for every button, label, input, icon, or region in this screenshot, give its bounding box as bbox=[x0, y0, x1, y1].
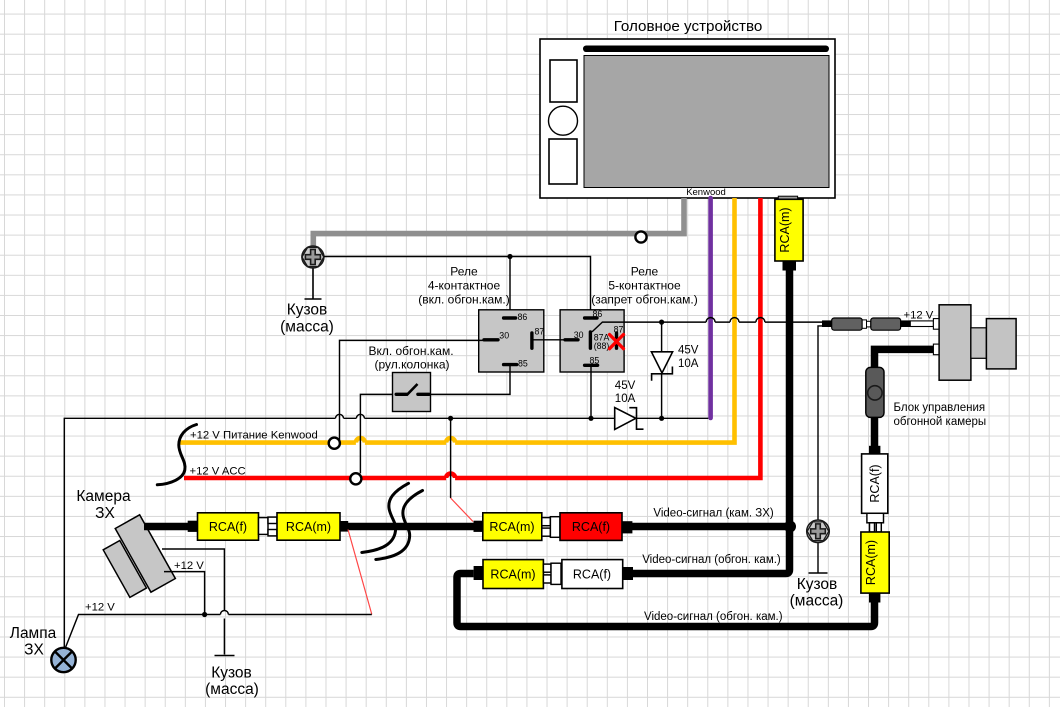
svg-text:85: 85 bbox=[518, 358, 528, 368]
svg-text:Камера: Камера bbox=[76, 488, 131, 505]
cable video main vertical bbox=[786, 269, 794, 527]
head unit U1 body bbox=[540, 39, 835, 198]
svg-text:+12 V Питание Kenwood: +12 V Питание Kenwood bbox=[190, 430, 318, 442]
connector RCA(m) row2 bbox=[483, 560, 543, 589]
label Кузов (масса) left bbox=[280, 302, 334, 336]
svg-text:(вкл. обгон.кам.): (вкл. обгон.кам.) bbox=[418, 293, 510, 307]
svg-text:Лампа: Лампа bbox=[10, 625, 57, 642]
connector RCA(f) camera bbox=[198, 513, 259, 540]
svg-text:Реле: Реле bbox=[631, 265, 659, 279]
svg-text:86: 86 bbox=[518, 312, 528, 322]
fuse F1 bbox=[866, 367, 884, 417]
head unit knob bbox=[549, 106, 578, 135]
svg-text:Кузов: Кузов bbox=[797, 576, 838, 593]
svg-text:ЗХ: ЗХ bbox=[95, 505, 115, 522]
wire switch to relay K1 pin85 bbox=[431, 366, 511, 394]
label Вкл. обгон.кам. (рул.колонка) bbox=[368, 344, 453, 371]
diode D1 45V 10A horizontal bbox=[591, 380, 662, 429]
wire +12V from relay K2 pin 87A to connectors bbox=[592, 318, 822, 332]
diode D2 45V 10A vertical bbox=[651, 322, 698, 418]
svg-text:(масса): (масса) bbox=[205, 681, 259, 698]
leader red into cable B bbox=[348, 530, 372, 615]
svg-text:(запрет обгон.кам.): (запрет обгон.кам.) bbox=[591, 293, 698, 307]
cable break S on supply wires bbox=[157, 425, 196, 485]
cable fuse to RCA(f) bbox=[869, 417, 880, 454]
connector RCA(f) red row1 bbox=[560, 513, 632, 541]
relay K2 pin 87A (88) bbox=[590, 332, 609, 351]
relay K1 4-pin body bbox=[479, 310, 544, 372]
control unit camera assembly bbox=[933, 305, 1016, 380]
label Камера ЗХ bbox=[76, 488, 131, 522]
connector RCA(m) head unit bbox=[775, 196, 803, 270]
wire switch to red tap bbox=[360, 394, 392, 473]
svg-text:ЗХ: ЗХ bbox=[24, 642, 44, 659]
label +12 V lamp bbox=[85, 602, 115, 614]
label Головное устройство bbox=[614, 18, 763, 35]
connector mating row1 bbox=[542, 517, 560, 538]
svg-text:обгонной камеры: обгонной камеры bbox=[894, 416, 987, 428]
label Кузов (масса) bottom bbox=[205, 665, 259, 699]
relay K1 pin 86 bbox=[504, 312, 528, 322]
svg-text:45V: 45V bbox=[678, 345, 699, 357]
connector RCA(f) white row2 bbox=[562, 560, 633, 589]
cable video row2 to RCA(f) bbox=[632, 527, 790, 574]
svg-text:Реле: Реле bbox=[450, 265, 478, 279]
svg-text:RCA(m): RCA(m) bbox=[490, 567, 535, 581]
label Лампа ЗХ bbox=[10, 625, 57, 659]
node junction video cables bbox=[784, 521, 796, 533]
connector ring tap on red wire bbox=[350, 473, 361, 484]
connector RCA(m) overtake camera bbox=[861, 532, 889, 593]
svg-text:(масса): (масса) bbox=[790, 593, 844, 610]
label +12 V ACC bbox=[190, 466, 246, 478]
svg-text:10A: 10A bbox=[678, 358, 699, 370]
svg-text:30: 30 bbox=[499, 330, 509, 340]
label Реле 5-контактное (запрет обгон.кам.) bbox=[591, 265, 698, 307]
wire red +12V ACC bbox=[184, 198, 760, 478]
connector mating right column bbox=[867, 513, 884, 532]
wire branch x450 down into video cable bbox=[450, 418, 452, 498]
lamp reverse light bbox=[51, 648, 75, 672]
svg-text:RCA(m): RCA(m) bbox=[489, 520, 534, 534]
relay K1 pin 30 bbox=[484, 330, 509, 340]
label +12 V camera bbox=[174, 560, 204, 572]
connector mating row2 bbox=[543, 563, 561, 584]
connector mating camera row bbox=[259, 517, 278, 536]
svg-text:(рул.колонка): (рул.колонка) bbox=[374, 357, 449, 371]
svg-text:Video-сигнал (обгон. кам.): Video-сигнал (обгон. кам.) bbox=[644, 611, 783, 623]
bullet connector pair on +12V feed bbox=[822, 318, 933, 330]
svg-text:Kenwood: Kenwood bbox=[686, 187, 726, 198]
wire ground drop to right bolt bbox=[809, 326, 828, 573]
node junction +12V line at diode D2 bbox=[659, 320, 664, 325]
switch S1 body bbox=[393, 373, 431, 412]
wire orange +12V Kenwood bbox=[180, 198, 735, 443]
relay K2 pin 87 (crossed out) bbox=[610, 324, 624, 348]
cable break S video 2 bbox=[376, 491, 423, 560]
connector ring on grey wire bbox=[635, 231, 646, 242]
node junction camera +12V bbox=[202, 612, 207, 617]
relay K1 pin 85 bbox=[504, 358, 528, 368]
svg-text:45V: 45V bbox=[615, 380, 636, 392]
label Kenwood bbox=[686, 187, 726, 198]
camera rear view bbox=[103, 515, 175, 598]
svg-text:+12 V: +12 V bbox=[174, 560, 204, 572]
wire grey ground from head unit bbox=[313, 198, 684, 246]
wire purple (reverse signal) bbox=[708, 198, 713, 418]
wire ground bolt to relay coil pins 86 bbox=[324, 257, 591, 318]
svg-text:86: 86 bbox=[593, 309, 603, 319]
bolt ground left bbox=[302, 246, 324, 299]
wire camera +12V bbox=[164, 572, 205, 615]
svg-text:Video-сигнал (кам. ЗХ): Video-сигнал (кам. ЗХ) bbox=[653, 508, 773, 520]
svg-text:RCA(f): RCA(f) bbox=[209, 520, 247, 534]
relay K2 5-pin body bbox=[560, 310, 624, 372]
svg-text:87: 87 bbox=[614, 324, 624, 334]
cable video bottom U bbox=[457, 574, 880, 627]
label Блок управления обгонной камеры bbox=[894, 402, 987, 428]
svg-text:Кузов: Кузов bbox=[287, 302, 328, 319]
svg-text:Головное устройство: Головное устройство bbox=[614, 18, 763, 35]
cable video camera row middle bbox=[348, 523, 474, 531]
svg-text:4-контактное: 4-контактное bbox=[428, 279, 501, 293]
svg-text:Кузов: Кузов bbox=[211, 665, 252, 682]
node junction on ground wire bbox=[507, 254, 512, 259]
svg-text:87: 87 bbox=[535, 327, 545, 337]
svg-text:Video-сигнал (обгон. кам.): Video-сигнал (обгон. кам.) bbox=[642, 554, 781, 566]
label Кузов (масса) right bbox=[790, 576, 844, 610]
connector RCA(m) camera bbox=[277, 513, 348, 540]
cable power control unit bbox=[875, 349, 934, 368]
leader red into cable A bbox=[451, 498, 473, 522]
svg-text:(масса): (масса) bbox=[280, 319, 334, 336]
wire control line to purple bbox=[662, 417, 709, 419]
head unit button 2 bbox=[549, 139, 577, 184]
svg-text:Вкл. обгон.кам.: Вкл. обгон.кам. bbox=[368, 344, 453, 358]
connector ring tap on orange wire bbox=[329, 438, 340, 449]
svg-text:RCA(f): RCA(f) bbox=[573, 567, 611, 581]
relay K2 pin 30 bbox=[565, 330, 584, 340]
svg-text:RCA(m): RCA(m) bbox=[286, 520, 331, 534]
connector RCA(m) middle row1 bbox=[483, 513, 542, 541]
label +12 V right bbox=[904, 310, 934, 322]
head unit button 1 bbox=[550, 60, 577, 102]
wire camera ground to body bbox=[162, 549, 235, 656]
svg-text:5-контактное: 5-контактное bbox=[608, 279, 681, 293]
svg-text:Блок управления: Блок управления bbox=[894, 402, 986, 414]
svg-text:RCA(m): RCA(m) bbox=[778, 207, 792, 252]
label Video-сигнал (кам. ЗХ) bbox=[653, 508, 773, 520]
connector stub row2 left bbox=[474, 566, 483, 580]
connector RCA(f) overtake camera bbox=[862, 454, 888, 513]
svg-text:+12 V ACC: +12 V ACC bbox=[190, 466, 246, 478]
wire +12V feed bottom bbox=[66, 611, 372, 648]
cable video row1 head-unit side bbox=[632, 523, 790, 531]
svg-text:85: 85 bbox=[590, 355, 600, 365]
label Video-сигнал (обгон. кам.) row2 bbox=[642, 554, 781, 566]
wire relay K2 pin85 / control line to lamp bbox=[64, 366, 591, 648]
node junction diode D2 bottom bbox=[659, 416, 664, 421]
connector stub RCA(m) middle bbox=[474, 521, 484, 532]
wire relay K1 pin87 to relay K2 pin30 bbox=[533, 339, 565, 341]
svg-text:RCA(m): RCA(m) bbox=[864, 540, 878, 585]
relay K2 pin 86 bbox=[585, 309, 603, 319]
svg-text:(88): (88) bbox=[594, 341, 610, 351]
cable camera to RCA(f) bbox=[144, 521, 198, 532]
label +12 V Питание Kenwood bbox=[190, 430, 318, 442]
relay K2 pin 85 bbox=[585, 355, 600, 365]
node junction control line x450 bbox=[448, 416, 453, 421]
node junction relay K2 pin85 bbox=[588, 416, 593, 421]
svg-text:RCA(f): RCA(f) bbox=[572, 520, 610, 534]
svg-text:+12 V: +12 V bbox=[904, 310, 934, 322]
label Реле 4-контактное (вкл. обгон.кам.) bbox=[418, 265, 510, 307]
cable break S video 1 bbox=[362, 483, 409, 552]
label Video-сигнал (обгон. кам.) bottom bbox=[644, 611, 783, 623]
svg-text:30: 30 bbox=[574, 330, 584, 340]
svg-text:10A: 10A bbox=[615, 393, 636, 405]
bolt ground right bbox=[807, 520, 830, 543]
wire relay K1 pin30 to orange tap bbox=[340, 340, 485, 440]
relay K1 pin 87 bbox=[532, 327, 544, 349]
svg-text:+12 V: +12 V bbox=[85, 602, 115, 614]
svg-text:RCA(f): RCA(f) bbox=[868, 464, 882, 502]
